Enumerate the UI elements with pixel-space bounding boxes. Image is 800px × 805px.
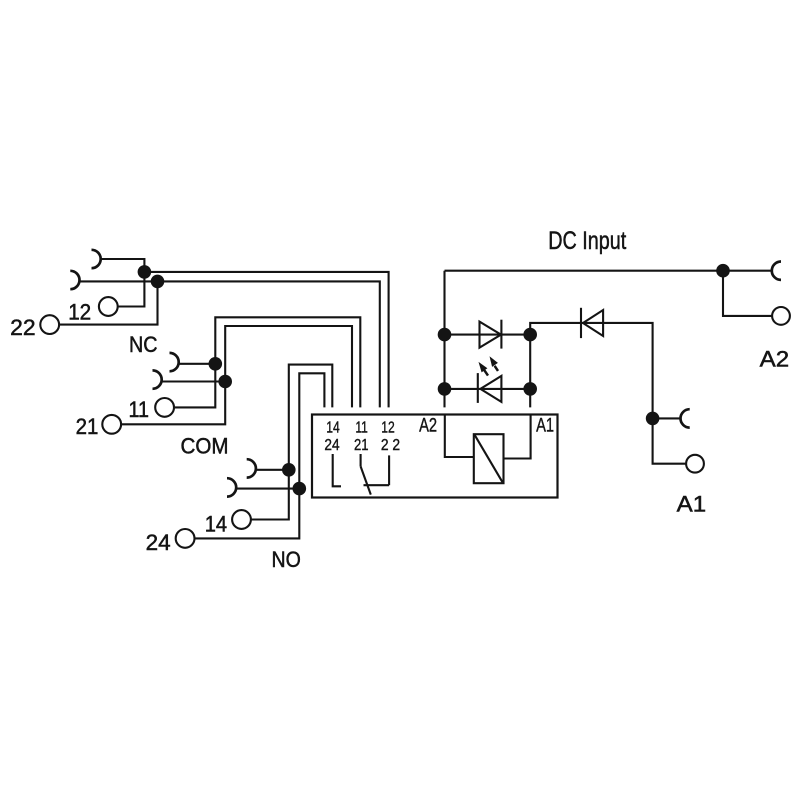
relay internal lead A2 to coil (445, 415, 474, 457)
wire node M2 to pin 24 (299, 373, 324, 488)
relay internal lead A1 to coil (504, 415, 531, 459)
wire NO arc2 to node M2 (236, 488, 299, 490)
wire node N1 to terminal 11 (174, 364, 215, 408)
wire node N1 to pin 11 (215, 317, 360, 407)
node N1 junction (209, 357, 223, 371)
terminal circle 22 (40, 315, 59, 334)
wire node M2 to terminal 24 (195, 489, 300, 539)
diode D1 triangle (480, 322, 502, 348)
wire node T1 to terminal A2 (723, 271, 772, 316)
terminal circle 24 (176, 529, 195, 548)
wire node T2 to terminal A1 (653, 418, 686, 463)
svg-text:14: 14 (326, 420, 340, 437)
wire node N2 to pin 21 (225, 326, 352, 407)
wire node F1 to terminal 12 (118, 272, 144, 307)
wire bridge right vertical pin A1 (530, 323, 652, 419)
relay box outline (312, 415, 558, 498)
node F1 junction (138, 265, 152, 279)
svg-text:DC Input: DC Input (548, 227, 626, 255)
wire node M1 to terminal 14 (251, 470, 289, 520)
svg-text:COM: COM (181, 434, 229, 459)
diode D2 triangle (583, 310, 603, 336)
svg-text:NO: NO (272, 547, 301, 572)
wire NO arc1 to node M1 (256, 469, 289, 471)
node B2 junction (523, 328, 537, 342)
svg-text:24: 24 (324, 437, 339, 454)
diode D2 cathode bar (580, 308, 582, 338)
wire bridge top diode branch (445, 334, 531, 336)
LED cathode bar (477, 373, 479, 403)
wire bridge left vertical pin A2 (443, 271, 445, 408)
socket arc A1 (681, 409, 690, 427)
svg-text:12: 12 (68, 299, 91, 324)
wire node N2 to terminal 21 (121, 382, 225, 425)
terminal circle 21 (102, 415, 121, 434)
terminal circle 11 (155, 398, 174, 417)
node M1 junction (282, 463, 296, 477)
svg-text:24: 24 (146, 530, 171, 555)
node B3 junction (438, 382, 452, 396)
LED arrow 2 (495, 366, 498, 371)
socket arc NC 1 (170, 353, 179, 371)
svg-text:2 2: 2 2 (381, 437, 400, 454)
socket arc top-left 2 (70, 271, 79, 289)
socket arc NO 1 (247, 459, 256, 477)
socket arc NC 2 (153, 370, 162, 388)
terminal circle 12 (99, 297, 118, 316)
relay contact lead 21 (360, 454, 362, 466)
wire bridge LED branch (445, 388, 531, 390)
diode D1 cathode bar (500, 320, 502, 349)
wire NC arc2 to node N2 (162, 380, 226, 382)
svg-text:11: 11 (129, 397, 150, 422)
svg-text:12: 12 (381, 420, 395, 437)
node F2 junction (151, 275, 165, 289)
socket arc A2 (772, 262, 781, 280)
wire arc2 to node F2 (80, 280, 158, 282)
wire node F1 to pin 12 (144, 272, 388, 408)
relay contact blade (361, 466, 371, 494)
svg-text:A2: A2 (419, 416, 437, 437)
wire DC input top rail (445, 270, 772, 272)
node M2 junction (293, 482, 307, 496)
relay contact lead 22 (388, 455, 390, 485)
svg-text:21: 21 (76, 414, 99, 439)
socket arc NO 2 (227, 478, 236, 496)
svg-text:22: 22 (10, 315, 36, 340)
relay coil K1 (474, 434, 504, 483)
socket arc top-left 1 (92, 250, 101, 268)
svg-text:14: 14 (205, 511, 227, 536)
svg-text:A1: A1 (677, 492, 707, 517)
terminal circle A1 (686, 455, 704, 473)
relay coil diagonal (475, 435, 503, 482)
svg-text:21: 21 (354, 437, 369, 454)
wire arc1 to node F1 (101, 259, 145, 272)
node N2 junction (218, 375, 232, 389)
svg-text:11: 11 (355, 420, 368, 437)
LED arrow 1 (484, 370, 488, 376)
node T1 junction (716, 264, 730, 278)
wire node T2 to arc A1 (653, 417, 681, 419)
node B4 junction (523, 382, 537, 396)
node B1 junction (438, 328, 452, 342)
terminal circle 14 (232, 510, 251, 529)
wire node F2 to pin 22 (158, 281, 380, 407)
wire node F2 to terminal 22 (59, 281, 157, 324)
relay contact lead 24 with NO foot (333, 454, 341, 486)
wire NC arc1 to node N1 (179, 363, 216, 365)
LED triangle (480, 376, 501, 402)
svg-text:NC: NC (129, 332, 158, 357)
wire node M1 to pin 14 (289, 365, 333, 470)
svg-text:A2: A2 (760, 347, 790, 372)
node T2 junction (646, 412, 660, 426)
svg-text:A1: A1 (536, 416, 554, 437)
terminal circle A2 (772, 307, 790, 325)
relay contact NC bar (364, 484, 390, 486)
